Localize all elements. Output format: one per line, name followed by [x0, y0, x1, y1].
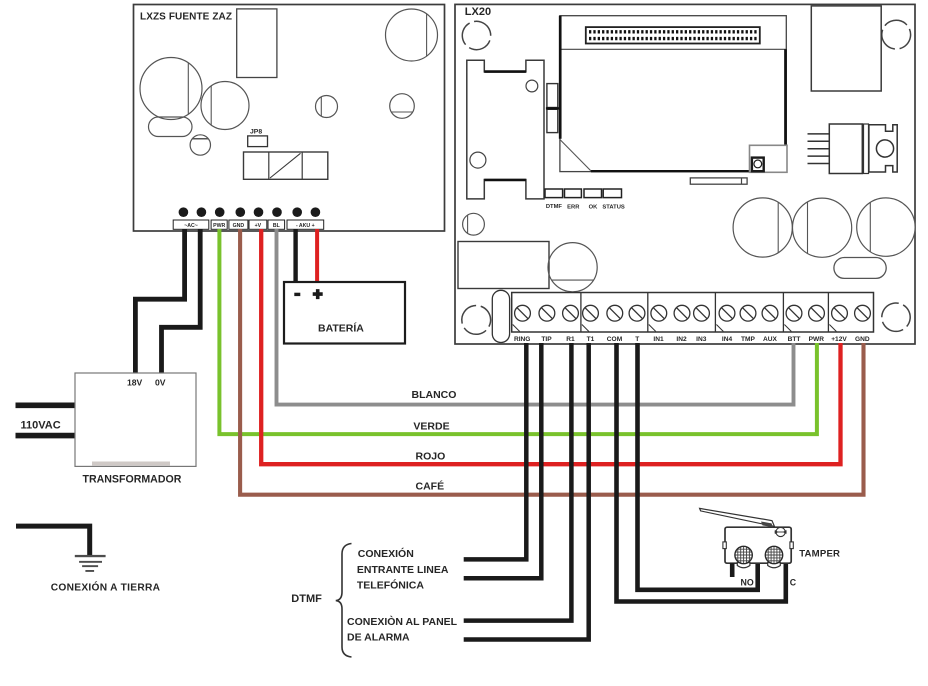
svg-text:- AKU +: - AKU +: [296, 223, 315, 229]
svg-text:TELEFÓNICA: TELEFÓNICA: [357, 579, 424, 592]
jumper JP8: [248, 136, 268, 147]
svg-text:CONEXIÓN A TIERRA: CONEXIÓN A TIERRA: [51, 581, 161, 594]
wire ROJO (red) +V -> +12V: [261, 229, 840, 464]
svg-text:CONEXIÓN: CONEXIÓN: [358, 547, 414, 560]
svg-text:LX20: LX20: [465, 6, 491, 18]
svg-text:TRANSFORMADOR: TRANSFORMADOR: [83, 474, 182, 486]
wire RING -> phone line: [464, 343, 527, 559]
label phone line connection: [357, 547, 449, 592]
battery box: [284, 282, 405, 344]
tamper left pin (unused): [730, 563, 735, 577]
svg-text:BL: BL: [273, 223, 281, 229]
svg-text:BLANCO: BLANCO: [412, 389, 457, 401]
svg-text:COM: COM: [607, 336, 623, 343]
capacitor CE3: [857, 198, 915, 256]
wire T -> tamper NO: [638, 343, 758, 590]
component rects beside bracket: [547, 84, 558, 133]
svg-text:LXZS FUENTE ZAZ: LXZS FUENTE ZAZ: [140, 12, 232, 23]
curly brace: [336, 544, 352, 658]
regulator pins: [808, 134, 830, 164]
wire TIP -> phone line: [464, 343, 542, 578]
svg-text:110VAC: 110VAC: [21, 420, 61, 432]
capacitor C2: [201, 82, 249, 130]
svg-text:NO: NO: [741, 577, 754, 587]
bar component below module: [690, 178, 747, 184]
wire AC2 (black): [162, 229, 201, 374]
terminal labels: [514, 336, 870, 343]
component pill (fuse): [149, 117, 193, 137]
hole in bracket (large): [470, 152, 486, 168]
svg-text:RING: RING: [514, 336, 530, 343]
svg-text:IN2: IN2: [676, 336, 687, 343]
svg-text:BTT: BTT: [788, 336, 801, 343]
svg-text:DTMF: DTMF: [291, 593, 322, 605]
tamper screw NO: [735, 546, 753, 568]
mounting hole bottom-right: [877, 298, 916, 337]
wire VERDE (green) PWR -> PWR: [219, 229, 817, 434]
svg-text:IN1: IN1: [653, 336, 664, 343]
capacitor C3 (top right): [386, 9, 438, 61]
transformer box: [75, 373, 196, 466]
svg-text:OK: OK: [589, 205, 599, 211]
tamper body: [725, 527, 791, 563]
svg-text:TMP: TMP: [741, 336, 756, 343]
svg-text:GND: GND: [233, 223, 245, 229]
erased text smudge: [92, 462, 170, 466]
svg-text:VERDE: VERDE: [413, 421, 449, 433]
wire R1 -> alarm panel: [464, 343, 572, 621]
svg-text:T1: T1: [587, 336, 595, 343]
block corner bevels: [513, 325, 837, 332]
svg-text:+12V: +12V: [831, 336, 847, 343]
svg-text:CONEXIÒN AL PANEL: CONEXIÒN AL PANEL: [347, 615, 458, 628]
svg-text:BATERÍA: BATERÍA: [318, 322, 364, 335]
svg-text:STATUS: STATUS: [602, 205, 624, 211]
svg-text:TAMPER: TAMPER: [799, 549, 840, 560]
svg-text:PWR: PWR: [809, 336, 825, 343]
mounting hole bottom-left: [460, 303, 493, 336]
svg-text:18V: 18V: [127, 378, 143, 388]
capacitor CE4: [548, 243, 597, 292]
capacitor C6 (small, below pill): [190, 135, 210, 155]
tamper lever: [700, 508, 775, 526]
svg-text:TIP: TIP: [541, 336, 552, 343]
svg-text:C: C: [790, 577, 797, 587]
wire T1 -> alarm panel: [464, 343, 589, 640]
wire AC1 (black): [135, 229, 184, 374]
capacitor CE2: [793, 198, 852, 257]
svg-text:ROJO: ROJO: [416, 451, 446, 463]
board LX20 outline: [455, 4, 915, 344]
vertical stadium component: [492, 290, 509, 342]
wire 110VAC line 2: [16, 433, 77, 439]
svg-text:DE ALARMA: DE ALARMA: [347, 632, 410, 644]
component pill LX20: [834, 258, 886, 279]
relay K2 bottom-left: [458, 242, 549, 289]
svg-text:CAFÉ: CAFÉ: [416, 480, 445, 493]
wire CAFE (brown) GND -> GND: [240, 229, 863, 495]
header connector J1: [586, 27, 760, 43]
module U1 (hybrid module): [560, 16, 786, 172]
relay rect top right: [811, 6, 881, 91]
screw terminals: [515, 305, 871, 321]
PSU terminal dots: [179, 207, 321, 217]
svg-text:PWR: PWR: [213, 223, 225, 229]
tamper pivot screw: [775, 527, 787, 536]
svg-text:JP8: JP8: [250, 129, 262, 136]
mounting hole top-left: [458, 17, 494, 53]
capacitor CE1: [733, 198, 792, 257]
svg-text:IN4: IN4: [722, 336, 733, 343]
wire BLANCO (gray) BL -> BTT: [277, 229, 794, 405]
wire COM -> tamper C: [617, 343, 786, 602]
svg-text:AUX: AUX: [763, 336, 778, 343]
terminal strip LX20: [512, 293, 874, 333]
transformer block on PSU: [237, 9, 277, 78]
svg-text:ENTRANTE LINEA: ENTRANTE LINEA: [357, 564, 449, 576]
tamper side tabs: [723, 542, 726, 549]
mounting hole top-right: [880, 18, 913, 51]
wire to earth ground: [16, 526, 90, 556]
hole in bracket (small): [526, 80, 538, 92]
svg-text:DTMF: DTMF: [546, 204, 563, 210]
label alarm panel connection: [347, 615, 458, 644]
svg-text:0V: 0V: [155, 378, 166, 388]
wire 110VAC line 1: [16, 402, 77, 408]
wire battery plus (red): [315, 229, 319, 283]
relay K1: [244, 152, 328, 179]
ground symbol: [75, 555, 106, 572]
capacitor C4 (middle small): [316, 96, 338, 118]
heat sink bracket: [467, 60, 544, 199]
board U-PSU outline: [134, 5, 445, 232]
svg-text:IN3: IN3: [696, 336, 707, 343]
capacitor CE5 (small with chord): [463, 213, 485, 235]
voltage regulator U2: [829, 124, 897, 174]
capacitor C5 (right small): [390, 94, 415, 119]
LED labels: [546, 204, 625, 210]
svg-text:GND: GND: [855, 336, 870, 343]
svg-text:T: T: [635, 336, 639, 343]
wire battery minus (black): [293, 229, 297, 283]
tamper screw C: [765, 546, 783, 568]
LED D1..D4: [545, 189, 622, 198]
svg-text:ERR: ERR: [567, 205, 580, 211]
battery plus mark: [313, 289, 323, 299]
svg-text:R1: R1: [566, 336, 575, 343]
svg-text:~AC~: ~AC~: [184, 223, 198, 229]
svg-text:+V: +V: [255, 223, 262, 229]
module corner box: [750, 145, 788, 172]
capacitor C1 (large): [140, 58, 202, 120]
module switch (square with circle): [752, 158, 764, 172]
battery minus mark: [294, 293, 300, 296]
PSU terminal label boxes: [173, 220, 324, 229]
